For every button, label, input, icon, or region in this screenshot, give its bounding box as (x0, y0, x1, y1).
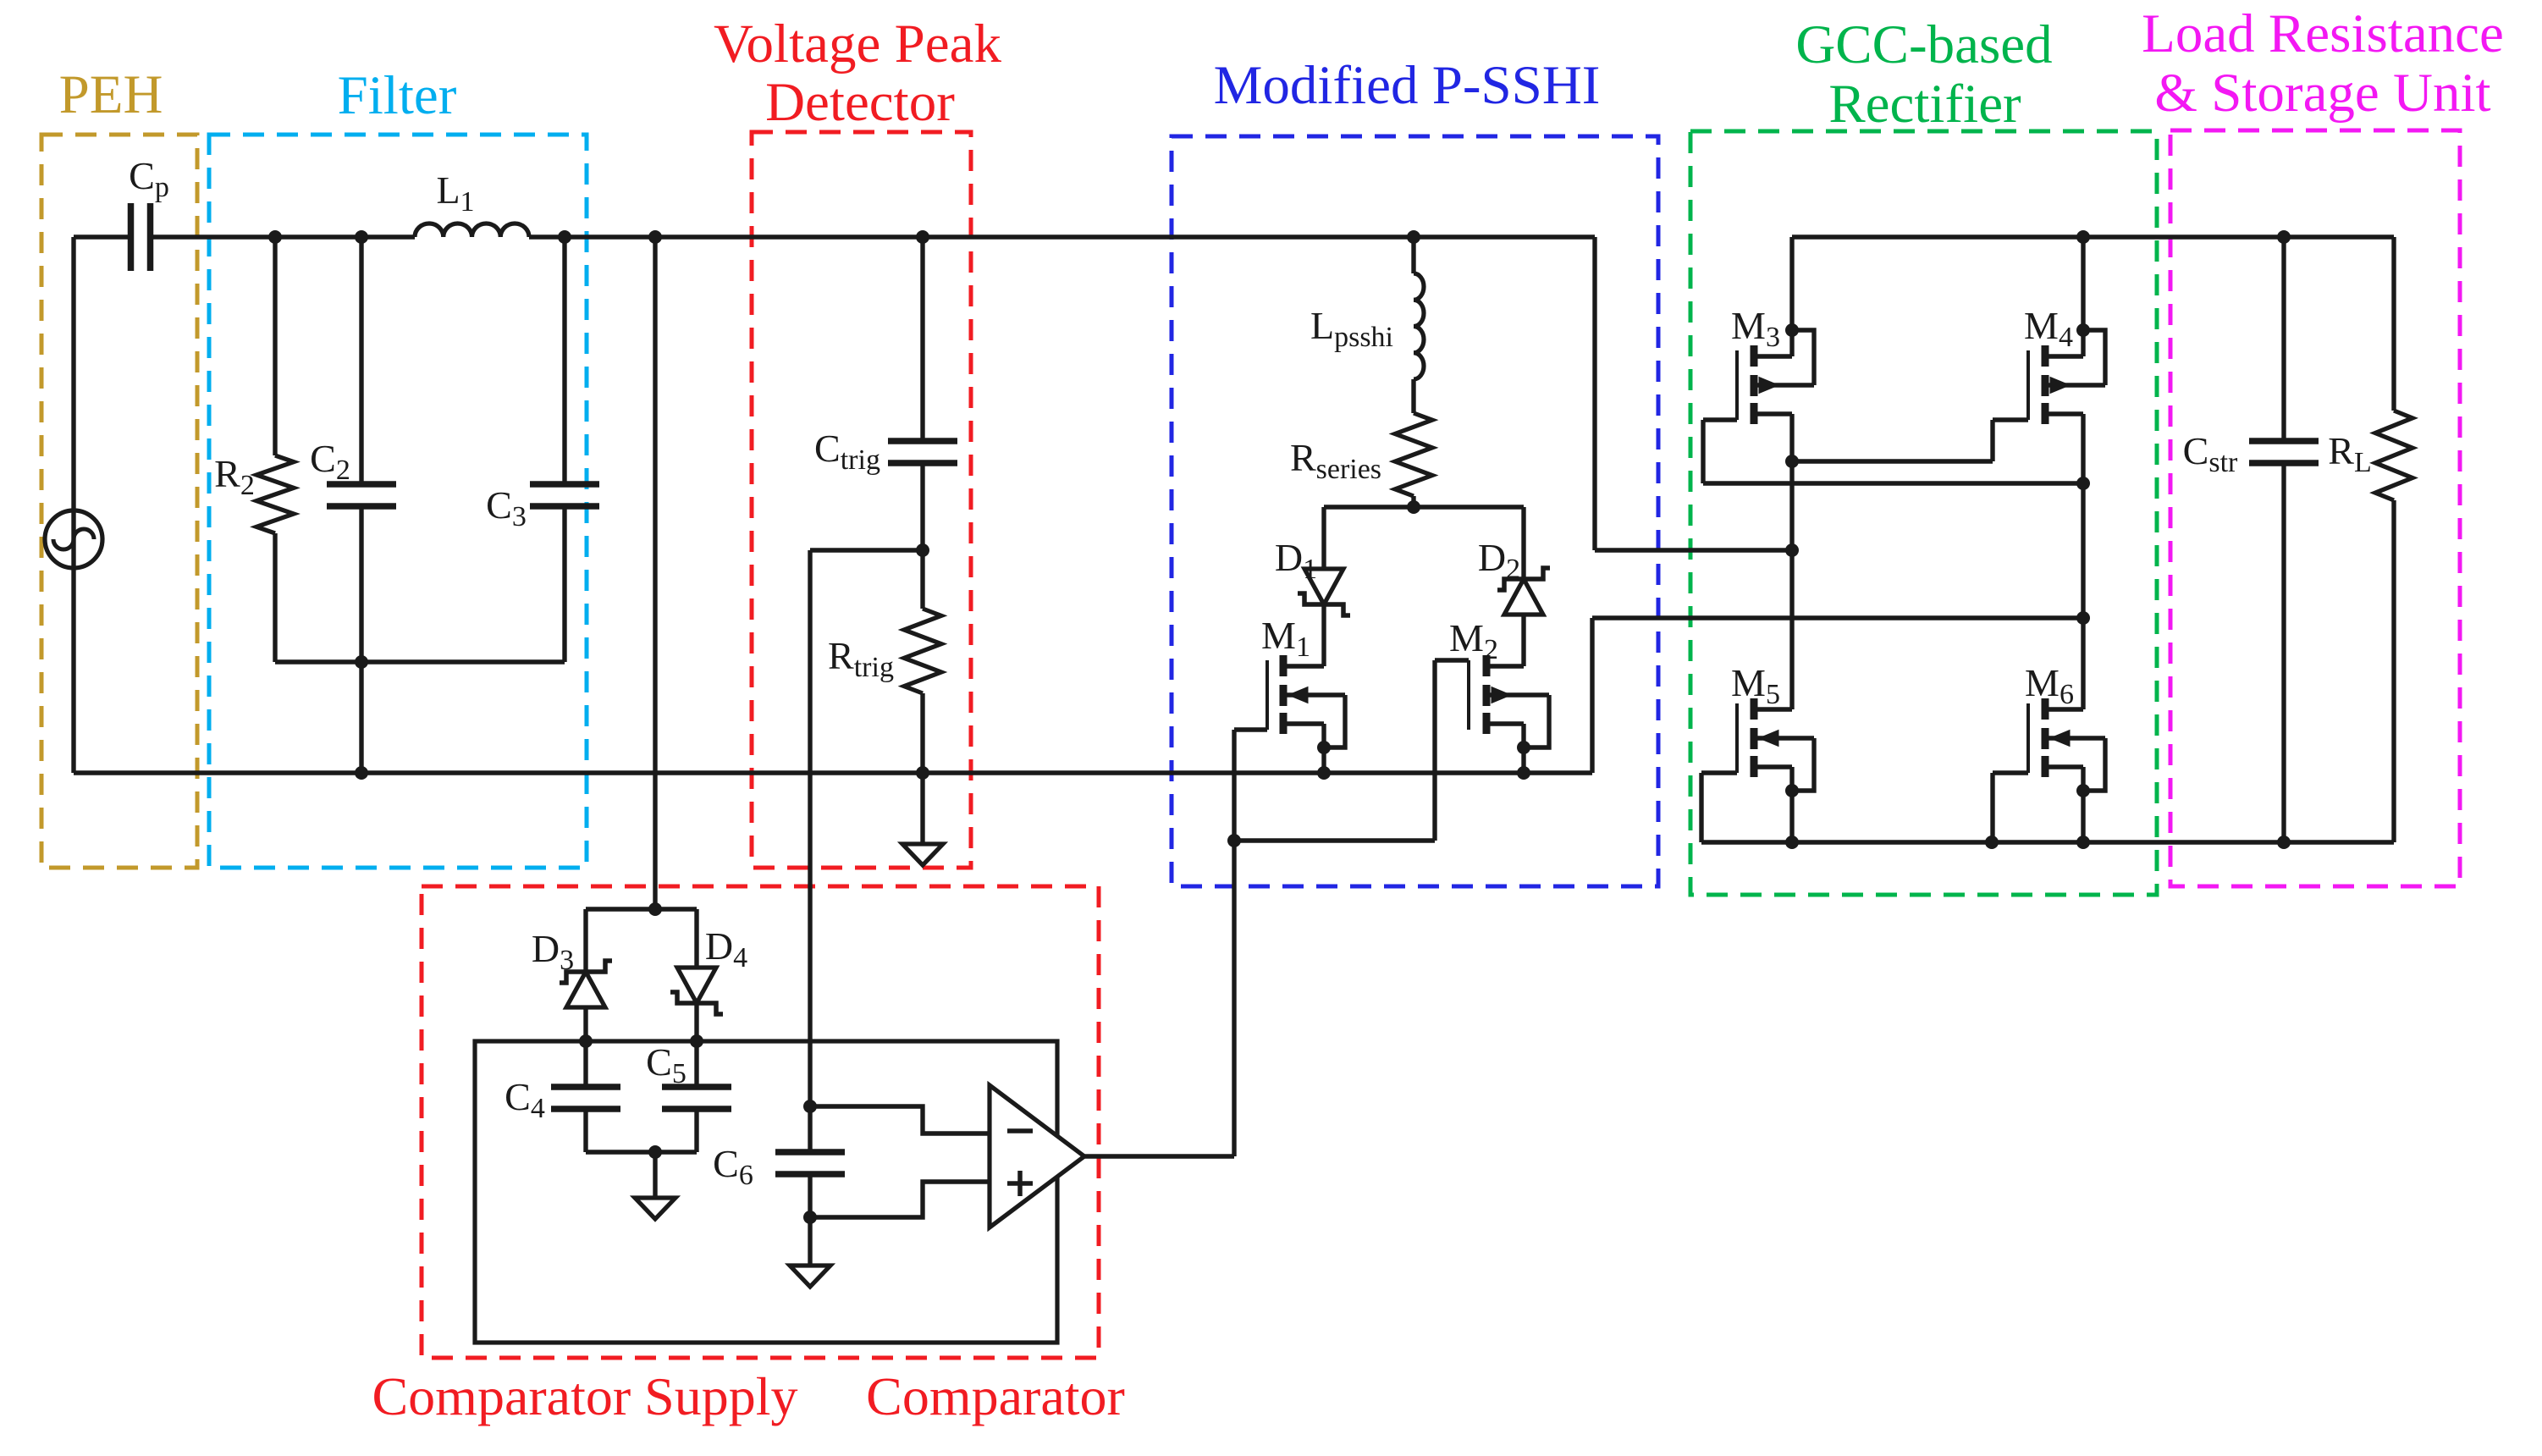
svg-text:Load Resistance: Load Resistance (2142, 3, 2504, 64)
svg-text:& Storage Unit: & Storage Unit (2154, 63, 2490, 124)
svg-text:PEH: PEH (59, 64, 163, 125)
svg-text:Voltage Peak: Voltage Peak (714, 14, 1001, 74)
svg-text:Filter: Filter (338, 65, 457, 126)
svg-text:GCC-based: GCC-based (1795, 14, 2052, 75)
svg-text:Rectifier: Rectifier (1828, 74, 2021, 135)
svg-text:Detector: Detector (765, 72, 955, 133)
svg-text:Comparator Supply: Comparator Supply (372, 1366, 797, 1426)
svg-text:Modified P-SSHI: Modified P-SSHI (1214, 55, 1601, 116)
svg-text:Comparator: Comparator (866, 1366, 1125, 1426)
